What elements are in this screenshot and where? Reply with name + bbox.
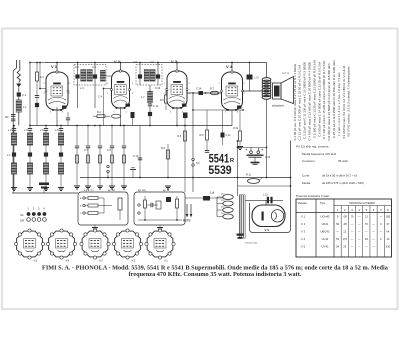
label ap [282,72,290,75]
coil L.5b [43,163,48,188]
ground G1 [11,188,17,191]
svg-text:—: — [358,223,361,226]
wire V4 anode [232,63,262,92]
legend numbers [28,207,46,211]
tube V4 [221,71,244,111]
svg-text:C.7 130 pF mica C.15 200 pF m: C.7 130 pF mica C.15 200 pF mica C.23 50… [322,61,326,139]
trimmer capacitor C3 [93,63,97,109]
choke L9 [185,191,223,201]
resistor R6b [178,126,187,193]
svg-text:R.1: R.1 [40,76,44,79]
svg-text:12: 12 [365,215,368,219]
note media frequenza [302,152,337,156]
label socket V.1 [164,259,168,263]
svg-text:ap. zs: ap. zs [163,190,170,192]
svg-text:C.8 460 pF mica C.16 5000 pF: C.8 460 pF mica C.16 5000 pF C.24 32 uF … [327,63,331,141]
svg-text:C.21: C.21 [226,134,232,137]
svg-text:50: 50 [336,222,339,226]
svg-text:L.4: L.4 [80,86,84,90]
coil L7 oscillator [141,85,152,104]
switch box S1 [78,192,128,225]
svg-text:C.4: C.4 [98,96,103,99]
tube V4 label [226,63,233,73]
svg-text:C.6 50 pF mica C.14 5000 pF c: C.6 50 pF mica C.14 5000 pF carta C.22 2… [317,62,321,137]
svg-text:RETE: RETE [183,219,191,223]
ground on bus [130,168,136,178]
coil L1 antenna [16,100,27,112]
svg-text:Valvola: Valvola [298,201,307,205]
svg-text:C.9: C.9 [150,61,155,64]
svg-text:C.1: C.1 [22,93,27,97]
wire T1 to V2 grid [103,76,112,126]
ground G3 [43,188,49,191]
capacitor C17 [24,126,32,134]
IF transformer T1 box [74,65,106,86]
wire top supply bus [45,62,267,64]
wire branch AF [193,109,244,111]
socket V.3 [80,229,110,259]
wire V1 grid feed [39,62,48,90]
svg-text:—: — [336,231,339,234]
pin numbers V4 [219,83,246,114]
svg-text:185: 185 [386,215,391,219]
svg-text:54: 54 [336,237,339,241]
svg-text:R.11: R.11 [246,174,252,177]
svg-text:tensioni alim.: tensioni alim. [245,242,258,245]
svg-text:C.2 12 pF aria C.10 200 pF mi: C.2 12 pF aria C.10 200 pF mica C.18 50 … [298,65,302,141]
switch labels 2 [138,189,170,192]
svg-text:UBC41: UBC41 [320,230,329,234]
switch box S2 [134,192,185,225]
svg-text:Corte: Corte [302,174,310,178]
svg-text:—: — [358,238,361,241]
svg-text:L.10: L.10 [263,194,268,197]
capacitor C21 [221,110,232,145]
caption line 2 [129,271,302,278]
trimmer capacitor C9 [156,63,160,86]
svg-text:—: — [351,238,354,241]
label V5 [265,228,270,232]
svg-text:UY41: UY41 [322,245,329,249]
svg-text:L.6: L.6 [55,129,59,132]
trimmer C23 [59,152,63,163]
svg-text:ap. t.sq: ap. t.sq [138,189,146,192]
coil L6 secondary [150,70,161,91]
resistor R6 [161,144,171,189]
svg-text:V 2: V 2 [114,59,121,64]
svg-text:L.2: L.2 [8,129,12,132]
coil L4 secondary [87,70,92,82]
svg-text:UF41: UF41 [322,222,329,226]
trimmer C20 [12,152,16,163]
pin numbers V3 [164,83,191,114]
trimmer capacitor C8 [138,63,142,86]
svg-text:L.1: L.1 [7,153,11,157]
tube V1 [45,71,69,111]
bus junctions left [13,125,62,127]
svg-text:—: — [365,231,368,234]
svg-text:ap.m.gr: ap.m.gr [282,72,290,75]
wire V3 cathode drop [176,107,178,126]
svg-text:70: 70 [350,215,353,219]
spark-gap zigzag [17,68,20,83]
switch S2 contacts [138,196,182,221]
svg-text:54: 54 [336,245,339,249]
note potenza [296,194,329,198]
capacitor C14 [196,88,203,96]
svg-text:L.1: L.1 [23,106,27,109]
caption line 1 [42,265,389,272]
svg-text:V.1: V.1 [164,259,168,263]
svg-text:V 5: V 5 [301,245,306,249]
pin numbers V2 [107,83,134,114]
svg-text:—: — [372,238,375,241]
svg-text:70: 70 [365,222,368,226]
svg-text:V.1 UCH42 conv. V.2 UF41 m.f.: V.1 UCH42 conv. V.2 UF41 m.f. V.3 UBC41 … [342,65,346,139]
svg-text:R.7: R.7 [210,88,215,91]
node j1 [205,92,207,94]
svg-text:C.4 100 pF mica C.12 460 pF m: C.4 100 pF mica C.12 460 pF mica C.20 50… [308,62,312,141]
resistor R5 [160,88,168,110]
RC chain 5 [121,125,127,189]
coil L4 primary [80,70,86,91]
note tensioni [245,242,258,245]
wire V1 cathode drop [56,107,58,126]
svg-text:35 watt: 35 watt [338,159,348,163]
electrolytic plates [247,155,271,159]
svg-text:R.10: R.10 [233,127,239,130]
switch labels 1 [84,189,115,192]
ground G2 [27,188,33,191]
svg-text:L.1 ant. L.2 m.f. L.4 m.f.: L.1 ant. L.2 m.f. L.4 m.f. L.7 osc. L.9 … [337,72,341,136]
speaker cone [281,77,294,104]
svg-text:—: — [358,231,361,234]
svg-text:frequenza 470 KHz. Consumo 35: frequenza 470 KHz. Consumo 35 watt. Pote… [129,271,302,278]
tube V3 [166,70,188,109]
RC chain 3 [97,125,103,189]
capacitor L10 filament [246,194,284,204]
svg-text:C.14: C.14 [196,88,202,91]
wire HT down [290,141,292,204]
switch contact S2a [192,158,200,166]
svg-text:ap. zst: ap. zst [108,189,115,192]
svg-text:V.3: V.3 [99,259,103,263]
svg-text:V 1: V 1 [301,215,306,219]
tube V5 rectifier [252,200,285,226]
socket V.5 [14,229,44,259]
svg-text:C.9: C.9 [107,149,112,152]
IF transformer T2 box [136,65,162,86]
note media [302,181,364,185]
svg-text:12: 12 [386,237,389,241]
wire V2 cathode drop [120,107,122,126]
svg-text:V 2: V 2 [301,222,306,226]
svg-text:C.1 50 pF cer. C.9 110 pF mic: C.1 50 pF cer. C.9 110 pF mica C.17 25 u… [293,63,297,140]
svg-text:Media: Media [302,181,311,185]
svg-text:R.2: R.2 [97,111,102,114]
svg-text:—: — [372,246,375,249]
svg-text:V.4: V.4 [66,259,70,263]
svg-text:12: 12 [343,230,346,234]
wire AVC bus [30,125,232,127]
labels C8 C9 [133,61,155,64]
svg-text:da 185 a 576 m (kHz 1620 ÷ 5: da 185 a 576 m (kHz 1620 ÷ 520) [322,181,364,185]
svg-text:L.5: L.5 [40,129,44,132]
svg-text:Tipo: Tipo [320,201,326,205]
capacitor C16 [8,126,16,134]
svg-text:PV 5,5 kHz reg. convers.: PV 5,5 kHz reg. convers. [296,145,329,149]
coil L.3b [27,163,32,188]
svg-text:L.7: L.7 [141,96,145,99]
trimmer capacitor C2 [75,63,79,109]
switch S1 contacts [80,192,122,220]
svg-text:SC: SC [20,213,24,217]
ground transformer [237,230,244,239]
wire B+ return bus [80,177,291,179]
svg-text:37: 37 [386,222,389,226]
coil L6 primary [144,70,149,82]
svg-text:UL41: UL41 [322,237,329,241]
tube V2 [111,70,131,109]
svg-text:-08: -08 [343,215,347,219]
note consumo [302,159,348,163]
coil L.3 [27,133,32,152]
svg-text:25: 25 [343,245,346,249]
svg-text:C.3: C.3 [92,66,97,69]
svg-text:altoparlante: altoparlante [272,105,285,108]
svg-text:V 3: V 3 [301,230,306,234]
svg-text:L.3: L.3 [24,129,28,132]
svg-text:5539: 5539 [208,163,232,177]
wire HT secondary [238,185,292,187]
capacitor C5 [66,112,70,126]
wire top-left drop [29,62,45,126]
RC chain 2 [85,125,91,189]
svg-text:C.7: C.7 [84,149,89,152]
svg-text:+: + [262,148,264,152]
socket V.1 [145,229,175,259]
svg-text:—: — [351,231,354,234]
svg-text:64: 64 [365,237,368,241]
trimmer C22 [44,152,48,163]
speaker coil [273,83,282,99]
svg-text:64: 64 [386,230,389,234]
svg-text:V 4: V 4 [301,237,306,241]
label model 5539 [208,163,232,177]
socket V.2 [112,229,142,259]
svg-text:a p e r t o: a p e r t o [84,189,94,192]
resistor R7 [210,88,219,95]
svg-text:da 18 a 50 m (kHz 16,7 ÷ 6: da 18 a 50 m (kHz 16,7 ÷ 6) [322,174,357,178]
capacitor C10 [133,126,142,178]
svg-text:SM: SM [20,219,24,223]
svg-text:Media frequenza 470 kHz: Media frequenza 470 kHz [302,152,337,156]
svg-text:V.5 UY41 raddrizz. S.1 S.2 co: V.5 UY41 raddrizz. S.1 S.2 commut. T.4 a… [347,66,351,137]
wire V5 heater loop [250,203,291,233]
resistor R1 chain [35,62,45,126]
label altoparlante [272,105,285,108]
ground electrolytic [251,157,260,164]
svg-text:3M: 3M [5,116,8,119]
coil L.6 [58,133,63,152]
output transformer T3 [262,63,271,178]
switch contact S1a [107,165,109,177]
svg-text:C.12: C.12 [153,105,159,108]
trimmer C21 [28,152,32,163]
wire HT feed [237,140,268,196]
svg-text:C.10: C.10 [133,155,139,158]
coil L5 osc [98,71,105,99]
label socket V.5 [34,259,38,263]
svg-text:—: — [351,223,354,226]
wire chassis bus left [12,190,78,193]
svg-text:—: — [379,216,382,219]
svg-text:230: 230 [386,245,391,249]
wire detector to switch [192,92,194,192]
RC chain 1 [74,125,80,189]
svg-text:—: — [379,231,382,234]
label model 5541R [209,151,235,165]
labels C7 C9 [84,149,112,152]
capacitor C19 [55,126,63,134]
svg-text:R.9: R.9 [200,134,205,137]
resistor R9 [200,110,210,152]
voltage table TENSIONI AI PIEDINI [296,199,392,257]
svg-text:C.25 32 uF el. R.9 1500 ohm: C.25 32 uF el. R.9 1500 ohm R.10 150 ohm… [332,60,336,138]
wire V3 to V4 [187,92,222,94]
svg-text:C.5 300 pF mica C.13 20 pF mi: C.5 300 pF mica C.13 20 pF mica C.21 100… [312,60,316,138]
legend SM circles [20,218,46,223]
capacitor C3a [5,115,15,121]
bus junctions [56,125,178,127]
svg-text:C.8: C.8 [133,61,138,64]
svg-text:—: — [351,246,354,249]
coil L.6b [58,163,63,188]
capacitors C24 C25 electrolytic [246,148,264,154]
svg-text:—: — [358,246,361,249]
svg-text:C.3 12 pF aria C.11 130 pF mi: C.3 12 pF aria C.11 130 pF mica C.19 100… [303,62,307,139]
tube V1 label [51,63,58,73]
note PV [296,145,329,149]
coil L.2 [11,133,16,152]
svg-text:R.6: R.6 [178,135,182,138]
svg-text:V.2: V.2 [132,259,136,263]
capacitor C12 [148,104,159,112]
labels C2 C3 [75,66,97,69]
svg-text:C.10: C.10 [155,87,161,90]
svg-text:V 5: V 5 [265,228,270,232]
coil L.5 [43,133,48,152]
resistor R10 [233,110,243,150]
resistor R3 [112,114,121,118]
svg-text:—: — [372,231,375,234]
capacitor C18 [40,126,48,134]
tube V2 label [114,59,121,71]
svg-text:170: 170 [343,237,348,241]
wire V4 cathode drop [231,110,233,126]
resistor R11 field [246,174,263,184]
power transformer T4 [217,194,245,238]
RC chain 4 [109,125,115,189]
ground S2 [157,225,163,231]
capacitor C1 [17,92,27,125]
arrester A1 [16,84,21,93]
socket V.4 [46,229,76,259]
svg-text:+: + [246,148,248,152]
pin numbers V1 [44,83,71,114]
svg-text:TENSIONI ai PIEDINI: TENSIONI ai PIEDINI [349,201,375,205]
svg-text:V.5: V.5 [34,259,38,263]
capacitor C16 [183,113,188,127]
label socket V.3 [99,259,103,263]
svg-text:Potenza indistorta 3 watt: Potenza indistorta 3 watt [296,194,329,198]
svg-text:Consumo: Consumo [302,159,315,163]
svg-text:UCH42: UCH42 [320,215,330,219]
svg-text:—: — [365,246,368,249]
capacitor C22 block [39,183,49,194]
svg-text:—: — [358,216,361,219]
label socket V.4 [66,259,70,263]
legend SC dots [20,212,46,217]
capacitor C15 [247,63,260,92]
rotated parts list [293,60,351,141]
tube V3 label [171,59,178,71]
ground S1 [92,225,98,231]
ground G4 [58,188,64,191]
svg-text:L.7n: L.7n [254,77,259,80]
wire antenna down [7,126,13,191]
mains RETE plug [183,204,192,223]
trimmer C13 [148,112,152,126]
label socket V.2 [132,259,136,263]
resistor R2 [93,111,110,118]
capacitor C6 [131,112,135,126]
note corte [302,174,357,178]
svg-text:R.6: R.6 [161,147,166,150]
svg-text:C.25: C.25 [265,156,271,159]
antenna terminals [13,60,20,190]
coil L.2b [11,163,16,188]
svg-text:—: — [372,223,375,226]
svg-text:L.9: L.9 [210,191,214,195]
svg-text:R.5: R.5 [160,99,164,102]
svg-text:-08: -08 [343,222,347,226]
